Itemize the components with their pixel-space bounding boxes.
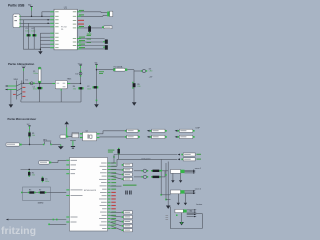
svg-text:R6: R6 — [29, 189, 31, 191]
svg-text:Lecteur: Lecteur — [196, 203, 203, 206]
svg-text:fritzing: fritzing — [1, 225, 36, 237]
svg-text:R7: R7 — [39, 189, 41, 191]
svg-text:Partie Microcontroleur: Partie Microcontroleur — [8, 117, 37, 121]
svg-text:Partie USB: Partie USB — [8, 3, 25, 7]
svg-text:servo 2: servo 2 — [195, 188, 201, 191]
svg-text:LED pin13: LED pin13 — [142, 159, 151, 161]
svg-text:330: 330 — [73, 88, 76, 90]
svg-text:ICSP: ICSP — [196, 127, 201, 129]
svg-text:100n: 100n — [45, 181, 49, 183]
svg-text:100u: 100u — [33, 89, 37, 91]
svg-text:100n: 100n — [87, 88, 91, 90]
svg-text:16MHz: 16MHz — [38, 203, 44, 205]
svg-text:100n: 100n — [25, 30, 29, 32]
svg-text:10k: 10k — [32, 175, 35, 177]
svg-text:330: 330 — [137, 86, 140, 88]
svg-text:100n: 100n — [31, 30, 35, 32]
svg-text:10k: 10k — [32, 135, 35, 137]
svg-text:ATMEGA328: ATMEGA328 — [84, 189, 97, 192]
svg-text:servo 1: servo 1 — [195, 167, 201, 170]
svg-text:LED: LED — [149, 71, 153, 73]
